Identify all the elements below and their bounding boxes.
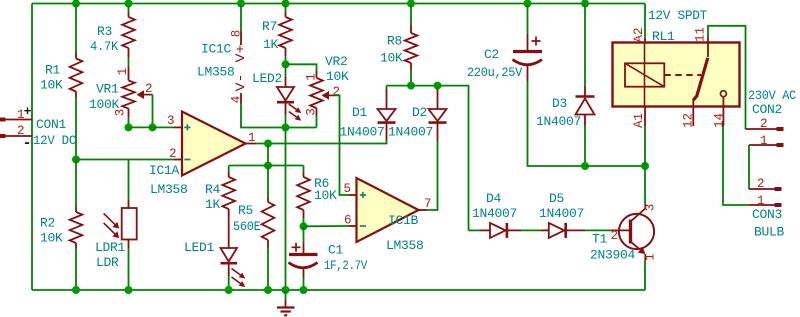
resistor R8 bbox=[410, 25, 412, 33]
op-amp IC1C power pin V+ pin 8 bbox=[240, 32, 242, 46]
node junction top rail at C2 bbox=[524, 0, 532, 8]
wire C2 bottom bbox=[528, 81, 586, 166]
svg-text:2: 2 bbox=[757, 177, 765, 191]
pin 1 stub IC1A output bbox=[246, 143, 257, 145]
wire T1 emitter to ground rail bbox=[644, 260, 646, 290]
svg-text:12: 12 bbox=[682, 113, 696, 128]
svg-text:R7: R7 bbox=[262, 19, 277, 34]
node junction top rail at D3 bbox=[581, 0, 589, 8]
svg-text:1N4007: 1N4007 bbox=[340, 125, 385, 140]
svg-text:D1: D1 bbox=[352, 105, 368, 120]
diode D2 bbox=[437, 89, 439, 109]
wire R3 to VR1 bbox=[128, 58, 130, 67]
pin 5 stub IC1B bbox=[349, 194, 357, 196]
svg-text:2: 2 bbox=[611, 229, 619, 243]
wire relay pin 14 to CON3 pin 1 bbox=[723, 126, 749, 205]
wire D4 input bbox=[469, 229, 481, 231]
svg-text:560E: 560E bbox=[233, 219, 261, 234]
svg-text:A2: A2 bbox=[632, 27, 646, 42]
svg-text:1N4007: 1N4007 bbox=[388, 125, 433, 140]
wire LED2 net down to ground rail bbox=[285, 128, 287, 291]
node junction D3 bottom bbox=[581, 162, 589, 170]
resistor R1 bbox=[75, 52, 77, 59]
op-amp IC1A bbox=[182, 112, 246, 176]
potentiometer VR2 bbox=[316, 71, 318, 78]
svg-text:LM358: LM358 bbox=[150, 182, 188, 197]
svg-text:LDR1: LDR1 bbox=[95, 240, 126, 255]
wire R4/R5/R6 horizontal bbox=[229, 165, 304, 167]
pin 3 stub IC1A bbox=[174, 126, 182, 128]
wire output node down bbox=[267, 144, 269, 166]
wire VR2 wiper to IC1B pin 5 bbox=[334, 95, 349, 195]
wire non-inverting input to IC1A pin 3 bbox=[129, 126, 175, 128]
wire relay A1 down bbox=[644, 126, 646, 166]
relay coil bbox=[625, 63, 664, 86]
connector CON2 pin 1 bbox=[749, 144, 777, 146]
potentiometer VR1 bbox=[128, 67, 130, 81]
svg-text:1K: 1K bbox=[263, 37, 279, 52]
T1 base stub bbox=[611, 229, 629, 231]
svg-text:RL1: RL1 bbox=[652, 29, 675, 44]
relay contact pin 14 circle bbox=[720, 91, 726, 97]
wire LDR top bbox=[128, 160, 130, 201]
wire R3 top bbox=[128, 4, 130, 13]
wire D3 top bbox=[584, 4, 586, 87]
relay coil axis line bbox=[644, 43, 646, 107]
svg-text:7: 7 bbox=[424, 197, 432, 211]
wire T1 collector bbox=[644, 166, 646, 204]
wire R1 bottom to inverting node bbox=[75, 98, 77, 160]
relay pin 12 bbox=[692, 100, 694, 127]
wire R2 bottom bbox=[75, 248, 77, 290]
svg-text:R3: R3 bbox=[97, 24, 112, 39]
wire V+ supply bbox=[240, 4, 242, 32]
node junction at D2 top bbox=[434, 82, 442, 90]
node junction bottom rail at LED1 bbox=[225, 286, 233, 294]
VR2 wiper arrow bbox=[329, 94, 334, 96]
svg-text:CON1: CON1 bbox=[36, 117, 67, 132]
wire bottom ground rail bbox=[32, 289, 645, 291]
wire to relay A1 / T1 collector bbox=[585, 165, 645, 167]
wire LED1 bottom bbox=[228, 276, 230, 290]
LED1 arrows bbox=[232, 269, 244, 278]
svg-text:1: 1 bbox=[248, 131, 256, 145]
svg-text:R2: R2 bbox=[40, 216, 55, 231]
wire R1 top bbox=[75, 4, 77, 53]
pin 2 stub IC1A bbox=[174, 159, 182, 161]
svg-text:R5: R5 bbox=[238, 203, 253, 218]
svg-text:BULB: BULB bbox=[754, 225, 785, 240]
wire VR2 bottom to V- net bbox=[316, 116, 318, 128]
wire R7 top bbox=[285, 4, 287, 13]
resistor R6 bbox=[303, 166, 305, 173]
svg-text:1K: 1K bbox=[205, 197, 221, 212]
node junction R6/C1/pin6 bbox=[300, 222, 308, 230]
svg-text:D3: D3 bbox=[552, 96, 567, 111]
svg-text:100K: 100K bbox=[89, 97, 120, 112]
node junction bottom rail at C1 bbox=[300, 286, 308, 294]
wire LED2 cathode bbox=[285, 115, 287, 128]
wire D5 to T1 base bbox=[585, 229, 611, 231]
wire R6 bottom bbox=[303, 218, 305, 226]
node junction bottom rail at LDR bbox=[125, 286, 133, 294]
resistor R5 bbox=[267, 166, 269, 198]
wire D3 bottom bbox=[584, 126, 586, 167]
wire R7 bottom bbox=[285, 56, 287, 64]
relay A2 pin bbox=[644, 38, 646, 43]
svg-text:V-: V- bbox=[234, 74, 248, 92]
node junction LED2/V- net bbox=[282, 124, 290, 132]
svg-text:VR2: VR2 bbox=[325, 54, 348, 69]
diode D5 bbox=[541, 229, 549, 231]
op-amp IC1B bbox=[357, 178, 419, 242]
wire left vertical from rail to CON1 and down bbox=[31, 4, 33, 291]
LED2 arrows bbox=[289, 104, 300, 112]
node junction top rail at R8 bbox=[407, 0, 415, 8]
wire top power rail bbox=[32, 3, 645, 5]
svg-text:6: 6 bbox=[344, 214, 352, 228]
LED LED1 bbox=[221, 248, 238, 262]
node junction VR1 bottom bbox=[125, 123, 133, 131]
svg-text:+: + bbox=[24, 104, 32, 119]
svg-text:LED2: LED2 bbox=[252, 71, 282, 86]
node junction top rail at R7 bbox=[282, 0, 290, 8]
capacitor C2 bbox=[527, 4, 529, 35]
svg-text:LM358: LM358 bbox=[197, 65, 235, 80]
svg-text:2N3904: 2N3904 bbox=[590, 248, 636, 263]
node junction R1/R2/pin2 bbox=[72, 156, 80, 164]
wire LDR bottom bbox=[128, 248, 130, 290]
svg-text:C1: C1 bbox=[328, 243, 344, 258]
diode D1 bbox=[386, 86, 388, 89]
connector CON1 pin 2 bbox=[1, 135, 32, 137]
svg-text:1: 1 bbox=[304, 73, 318, 81]
resistor R3 bbox=[128, 12, 130, 17]
svg-text:3: 3 bbox=[167, 114, 175, 128]
svg-text:11: 11 bbox=[694, 27, 708, 42]
pin 7 stub IC1B output bbox=[419, 209, 428, 211]
wire IC1A output bbox=[256, 140, 387, 144]
node junction bottom rail at R2 bbox=[72, 286, 80, 294]
svg-text:8: 8 bbox=[229, 30, 243, 38]
svg-text:230V AC: 230V AC bbox=[748, 88, 796, 103]
wire VR1 wiper down bbox=[152, 95, 154, 128]
svg-text:LDR: LDR bbox=[96, 255, 119, 270]
wire to VR2 top bbox=[286, 64, 317, 71]
svg-text:IC1B: IC1B bbox=[388, 213, 419, 228]
svg-text:10K: 10K bbox=[326, 69, 349, 84]
wire R8 bottom bbox=[410, 70, 412, 86]
svg-text:12V SPDT: 12V SPDT bbox=[648, 8, 707, 23]
svg-text:A1: A1 bbox=[632, 113, 646, 128]
svg-text:R8: R8 bbox=[387, 34, 402, 49]
wire R5 bottom bbox=[267, 248, 269, 290]
relay dashed link bbox=[664, 74, 701, 76]
wire IC1B output up to D2 bbox=[427, 141, 438, 210]
svg-text:10K: 10K bbox=[380, 51, 403, 66]
resistor R4 bbox=[228, 166, 230, 173]
svg-text:4.7K: 4.7K bbox=[90, 39, 118, 54]
relay pin 14 bbox=[722, 97, 724, 126]
wire C1 bottom bbox=[303, 277, 305, 290]
svg-text:IC1A: IC1A bbox=[149, 163, 180, 178]
wire D4 to D5 bbox=[521, 229, 541, 231]
svg-text:3: 3 bbox=[304, 108, 318, 116]
node junction bottom rail at R5 bbox=[264, 286, 272, 294]
svg-text:V+: V+ bbox=[234, 45, 248, 63]
node junction R4/R5/R6 net bbox=[264, 162, 272, 170]
svg-text:2: 2 bbox=[760, 117, 768, 131]
capacitor C1 bbox=[303, 226, 305, 243]
wire VR1 bottom bbox=[128, 117, 130, 127]
connector CON1 pin 1 bbox=[1, 119, 32, 121]
svg-text:VR1: VR1 bbox=[96, 82, 119, 97]
svg-text:D4: D4 bbox=[486, 191, 502, 206]
svg-text:3: 3 bbox=[643, 204, 657, 212]
svg-text:R1: R1 bbox=[45, 63, 61, 78]
svg-text:220u,25V: 220u,25V bbox=[467, 65, 522, 80]
diode D3 bbox=[584, 86, 586, 97]
relay RL1 body bbox=[613, 43, 740, 107]
svg-text:5: 5 bbox=[344, 182, 352, 196]
svg-text:D2: D2 bbox=[412, 105, 427, 120]
relay armature bbox=[693, 58, 708, 100]
node junction top rail at R1 bbox=[72, 0, 80, 8]
svg-text:T1: T1 bbox=[592, 232, 608, 247]
svg-text:1: 1 bbox=[116, 68, 130, 76]
svg-text:12V DC: 12V DC bbox=[33, 133, 76, 148]
photoresistor LDR1 bbox=[128, 200, 130, 208]
node junction bottom rail at LED2 net bbox=[282, 286, 290, 294]
svg-text:LM358: LM358 bbox=[386, 238, 424, 253]
transistor T1 2N3904 bbox=[619, 214, 654, 249]
VR1 wiper arrow bbox=[144, 94, 153, 96]
LED LED2 bbox=[285, 64, 287, 77]
svg-text:CON3: CON3 bbox=[752, 207, 782, 222]
node junction R8/D1/D2 net bbox=[407, 82, 415, 90]
connector CON3 pin 2 bbox=[749, 188, 775, 190]
svg-text:LED1: LED1 bbox=[184, 240, 215, 255]
wire relay pin 11 to CON2 pin 2 bbox=[708, 26, 746, 129]
svg-text:2: 2 bbox=[145, 82, 153, 96]
T1 emitter pin bbox=[644, 254, 646, 260]
svg-text:IC1C: IC1C bbox=[201, 42, 232, 57]
connector CON2 pin 2 bbox=[746, 128, 778, 130]
wire V- to LED2 net bbox=[241, 104, 317, 128]
node junction top rail at R3 bbox=[125, 0, 133, 8]
node junction relay A1 net bbox=[641, 162, 649, 170]
svg-text:R4: R4 bbox=[205, 182, 221, 197]
resistor R7 bbox=[285, 12, 287, 17]
svg-text:10K: 10K bbox=[314, 188, 337, 203]
svg-text:10K: 10K bbox=[40, 78, 63, 93]
wire R2 top bbox=[75, 160, 77, 208]
wire R8 top bbox=[410, 4, 412, 26]
ground bbox=[285, 290, 287, 300]
svg-text:-: - bbox=[23, 135, 32, 152]
svg-text:1: 1 bbox=[644, 253, 658, 261]
node junction R7/LED2/VR2 bbox=[282, 60, 290, 68]
pin 6 stub IC1B bbox=[349, 225, 357, 227]
svg-text:1: 1 bbox=[760, 134, 768, 148]
svg-text:D5: D5 bbox=[549, 191, 564, 206]
svg-text:1N4007: 1N4007 bbox=[539, 206, 584, 221]
wire top rail to relay A2 bbox=[644, 4, 646, 39]
svg-text:CON2: CON2 bbox=[752, 102, 782, 117]
svg-text:C2: C2 bbox=[484, 47, 499, 62]
svg-text:1N4007: 1N4007 bbox=[536, 114, 581, 129]
svg-text:1N4007: 1N4007 bbox=[472, 206, 517, 221]
relay A1 pin bbox=[644, 107, 646, 127]
T1 collector pin bbox=[644, 204, 646, 209]
resistor R2 bbox=[75, 207, 77, 212]
svg-text:14: 14 bbox=[712, 113, 726, 128]
wire CON2 pin1 down to CON3 pin 2 bbox=[748, 145, 750, 189]
wire D1 D2 top net bbox=[387, 86, 469, 231]
relay pin 11 bbox=[707, 37, 709, 57]
wire to IC1B pin 6 bbox=[304, 225, 350, 227]
connector CON3 pin 1 bbox=[749, 204, 775, 206]
node junction top rail at IC1C V+ bbox=[237, 0, 245, 8]
LDR1 arrows bbox=[104, 213, 115, 224]
diode D4 bbox=[480, 229, 490, 231]
node junction IC1A output bbox=[264, 140, 272, 148]
svg-text:1F,2.7V: 1F,2.7V bbox=[324, 258, 367, 273]
wire inverting input net to IC1A pin 2 bbox=[76, 159, 174, 161]
node junction wiper bbox=[149, 123, 157, 131]
svg-text:10K: 10K bbox=[40, 231, 63, 246]
svg-text:2: 2 bbox=[169, 147, 177, 161]
svg-text:1: 1 bbox=[757, 194, 765, 208]
